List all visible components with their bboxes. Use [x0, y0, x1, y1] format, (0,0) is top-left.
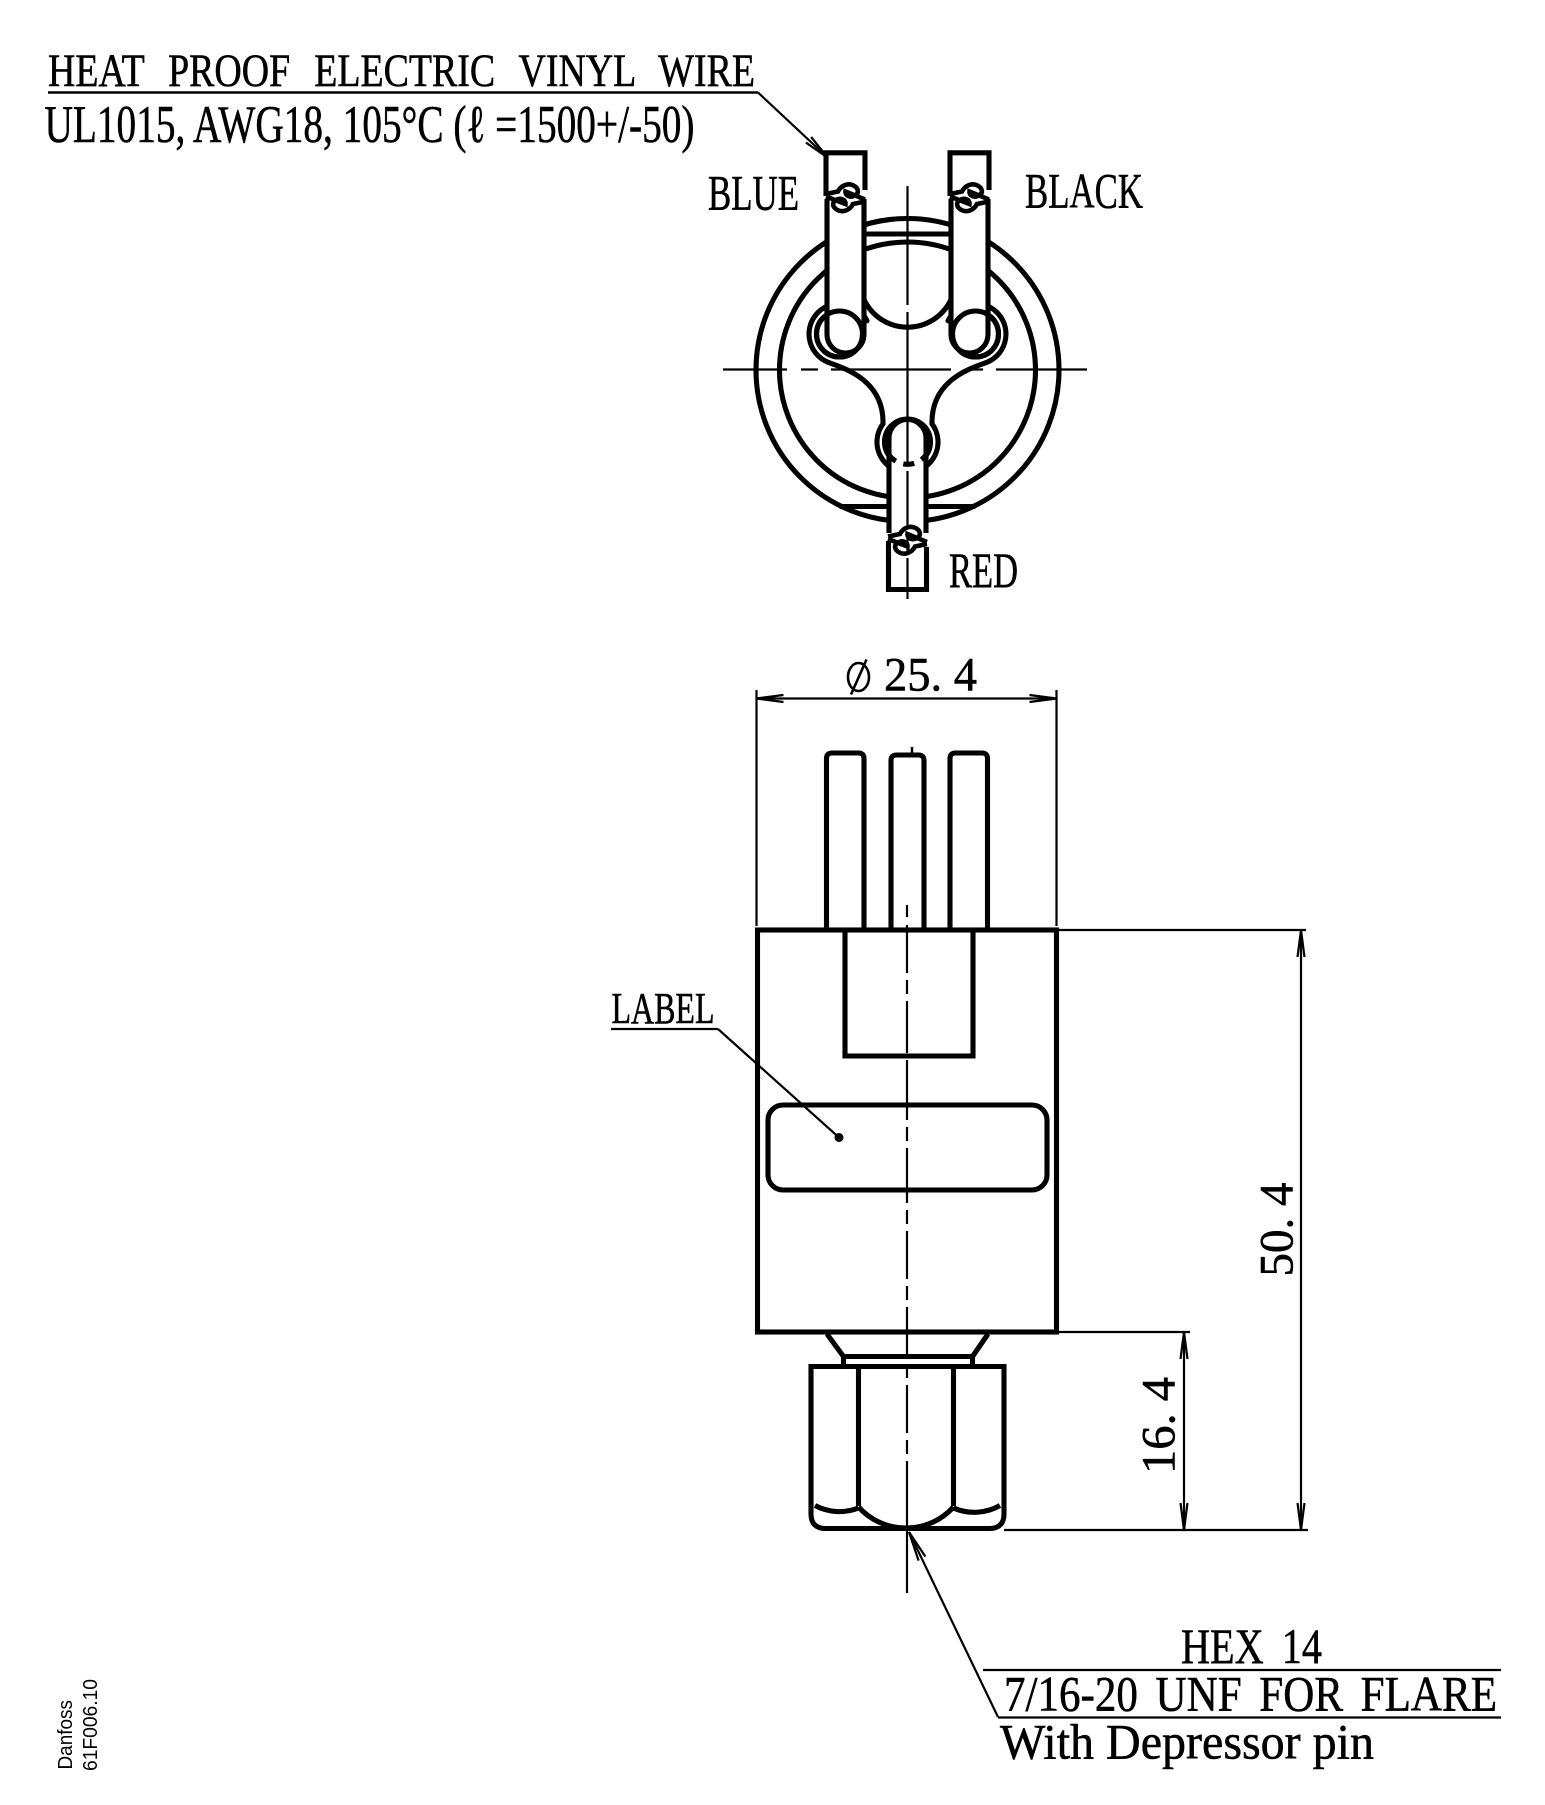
terminal circle RED (under)	[885, 419, 931, 465]
top view horizontal centerline	[723, 368, 1087, 370]
dim 50.4 line	[1300, 930, 1302, 1530]
body bottom extension line	[1057, 1331, 1191, 1333]
underline 7/16-20	[998, 1716, 1501, 1718]
bottom chord line	[841, 504, 974, 509]
svg-text:With Depressor pin: With Depressor pin	[1000, 1714, 1374, 1770]
title underline	[48, 91, 758, 94]
top chord line	[841, 231, 974, 236]
dim 16.4 arrow top	[1181, 1332, 1188, 1359]
front view vertical centerline	[906, 905, 908, 1593]
outer circle of boot (top view)	[756, 219, 1059, 522]
svg-text:LABEL: LABEL	[612, 984, 715, 1033]
neck flange right edge	[970, 1357, 975, 1367]
hex chamfer arc right	[954, 1506, 1001, 1513]
svg-text:RED: RED	[949, 542, 1018, 598]
terminal circle RED over-wire dashes	[888, 454, 927, 465]
svg-text:16. 4: 16. 4	[1133, 1377, 1186, 1474]
phi25.4 arrow right	[1030, 695, 1057, 702]
body top extension line	[1057, 929, 1307, 931]
svg-text:50. 4: 50. 4	[1251, 1183, 1304, 1277]
phi25.4 extension line right	[1055, 690, 1057, 926]
wire RED end stub	[889, 541, 927, 590]
phi25.4 dimension line	[757, 697, 1057, 699]
title leader arrowhead	[806, 137, 828, 158]
hex leader line	[909, 1532, 998, 1717]
svg-text:UL1015, AWG18, 105°C (ℓ =1500+: UL1015, AWG18, 105°C (ℓ =1500+/-50)	[45, 96, 695, 154]
svg-text:25. 4: 25. 4	[884, 649, 977, 702]
underline HEX 14	[983, 1669, 1501, 1671]
phi symbol	[848, 663, 869, 691]
nut bottom extension line	[1004, 1529, 1308, 1531]
terminal circle BLUE (under)	[817, 311, 863, 357]
label rectangle	[768, 1105, 1047, 1190]
dim 50.4 arrow top	[1298, 930, 1305, 957]
hex leader arrowhead	[909, 1532, 925, 1561]
body rectangle	[758, 930, 1057, 1332]
wire BLACK break squiggle upper	[950, 184, 989, 199]
dim 50.4 arrow bottom	[1298, 1503, 1305, 1530]
neck left slant	[827, 1334, 844, 1357]
svg-text:BLUE: BLUE	[708, 165, 799, 221]
terminal circle BLACK (under)	[953, 311, 999, 357]
neck right slant	[973, 1334, 989, 1357]
LABEL leader dot	[835, 1133, 844, 1142]
front wire left	[827, 753, 865, 930]
wire RED break squiggle lower	[888, 539, 927, 554]
top view vertical centerline	[906, 186, 908, 599]
LABEL underline	[611, 1028, 718, 1030]
hex facet line left	[856, 1367, 861, 1507]
wire BLUE cylinder	[827, 199, 864, 353]
front wire right	[950, 753, 988, 930]
wire BLUE break squiggle lower	[826, 197, 865, 212]
tick above middle wire	[911, 747, 914, 756]
sagging arc between upper lobes	[864, 300, 951, 328]
wire RED break squiggle upper	[888, 527, 927, 542]
title leader line	[758, 93, 828, 159]
dim 16.4 line	[1183, 1332, 1185, 1530]
wire BLACK end stub	[950, 153, 989, 196]
svg-text:BLACK: BLACK	[1025, 163, 1143, 219]
wire BLUE break squiggle upper	[826, 184, 865, 199]
neck flange line	[844, 1354, 973, 1359]
terminal circle BLUE (over)	[817, 311, 863, 357]
phi25.4 extension line left	[755, 690, 757, 926]
LABEL leader line	[718, 1029, 839, 1138]
hex facet line right	[951, 1367, 956, 1507]
phi25.4 arrow left	[757, 695, 784, 702]
inner circle of boot (top view)	[780, 242, 1036, 498]
wire BLACK cylinder	[951, 199, 988, 353]
boot lobed outline	[809, 304, 1006, 473]
wire RED cylinder	[889, 420, 926, 534]
connector boss	[845, 932, 973, 1056]
svg-text:Danfoss: Danfoss	[54, 1700, 77, 1770]
svg-text:61F006.10: 61F006.10	[79, 1679, 102, 1771]
front wire middle	[891, 755, 924, 930]
dim 16.4 arrow bottom	[1181, 1503, 1188, 1530]
neck flange left edge	[841, 1357, 846, 1367]
hex chamfer arc center	[859, 1507, 954, 1528]
svg-text:HEAT PROOF ELECTRIC VINYL WIRE: HEAT PROOF ELECTRIC VINYL WIRE	[48, 45, 755, 97]
wire BLACK break squiggle lower	[950, 197, 989, 212]
terminal circle BLACK (over)	[953, 311, 999, 357]
hex nut outline	[811, 1367, 1004, 1529]
wire BLUE end stub	[826, 153, 865, 196]
hex chamfer arc left	[815, 1506, 859, 1512]
